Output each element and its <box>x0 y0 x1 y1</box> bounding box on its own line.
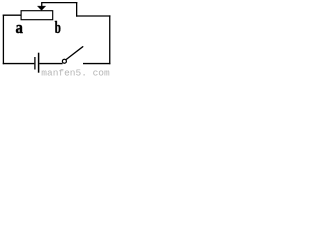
wire: lead from terminal a side of rheostat to top-left corner <box>3 14 21 16</box>
wire: right side of loop <box>109 15 111 64</box>
wire: step down at top-right <box>76 2 78 17</box>
battery cell B1 negative plate (short) <box>34 57 36 70</box>
resistor R1 (rheostat box) <box>21 11 53 20</box>
wire: upper-right horizontal run <box>76 15 110 17</box>
switch S1 blade (open) <box>66 47 83 60</box>
wiper arrow stem <box>41 2 43 6</box>
switch S1 pivot circle <box>62 59 66 63</box>
node a label <box>16 19 23 37</box>
wire: battery positive to switch pivot <box>39 63 62 65</box>
svg-text:a: a <box>16 19 23 37</box>
node b label <box>55 19 61 38</box>
svg-text:manfen5. com: manfen5. com <box>41 67 110 77</box>
wire: bottom-left to battery negative plate <box>3 63 35 65</box>
svg-text:b: b <box>55 19 61 38</box>
wiper arrowhead <box>37 6 45 10</box>
wire: bottom-right to switch fixed contact <box>83 63 110 65</box>
battery cell B1 positive plate (long) <box>38 53 40 73</box>
wire: left side of loop <box>2 15 4 65</box>
wire: wiper to top run <box>41 2 77 4</box>
